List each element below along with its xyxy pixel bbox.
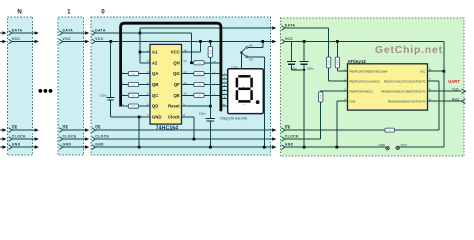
svg-text:100n: 100n bbox=[307, 66, 314, 70]
svg-text:A2: A2 bbox=[152, 60, 158, 65]
port CLOCK of module N bbox=[9, 137, 12, 142]
segment bus (bold) bbox=[121, 23, 221, 111]
7-segment indicator DS1 body bbox=[228, 69, 264, 114]
svg-text:QH: QH bbox=[173, 60, 179, 65]
wire DATA module0 port to node A bbox=[95, 32, 139, 34]
svg-text:PB4/PCINT4/ADC2: PB4/PCINT4/ADC2 bbox=[350, 89, 374, 93]
wire cascade vertical at node A bbox=[139, 28, 141, 63]
wire pin9 reset stub bbox=[182, 105, 211, 107]
7seg pins from bus bbox=[222, 74, 228, 76]
node caps ground join bbox=[303, 69, 305, 71]
svg-text:VCC: VCC bbox=[12, 37, 21, 41]
IC U2 ATtiny13 body bbox=[348, 64, 428, 110]
node A junction (DATA / A1A2 / cascade) bbox=[139, 32, 142, 35]
wire CLOCK from module N to next bbox=[34, 138, 36, 140]
svg-text:0: 0 bbox=[101, 9, 105, 16]
wire VCC through module 1 bbox=[63, 41, 86, 43]
wire VCC bottom to terminal bbox=[400, 146, 444, 148]
wire vertical to QH pin13 bbox=[190, 33, 192, 63]
IC U1 74HC164 body bbox=[150, 44, 182, 124]
svg-text:OE: OE bbox=[95, 126, 101, 130]
svg-text:GND: GND bbox=[95, 143, 104, 147]
wire CLOCK to resistor R13 bbox=[285, 138, 321, 140]
wire CLOCK through module N bbox=[12, 138, 35, 140]
svg-text:N: N bbox=[17, 9, 22, 16]
svg-text:DATA: DATA bbox=[63, 29, 74, 33]
wire feed-VCC into module N bbox=[0, 41, 4, 43]
wire GND through module 1 bbox=[63, 146, 86, 148]
wire pin8 VCC stub bbox=[428, 70, 444, 72]
svg-text:c: c bbox=[224, 81, 225, 83]
svg-text:GND: GND bbox=[152, 114, 162, 119]
svg-text:PB1/MISO/AIN1/OC0B/INT0/PCINT1: PB1/MISO/AIN1/OC0B/INT0/PCINT1 bbox=[381, 89, 426, 93]
resistor R1 segment (left QA) bbox=[122, 73, 128, 75]
svg-text:Reset: Reset bbox=[168, 104, 180, 109]
svg-text:PB3/PCINT3/CLKI/ADC3: PB3/PCINT3/CLKI/ADC3 bbox=[350, 79, 381, 83]
wire VCC through module N bbox=[12, 41, 35, 43]
wire OE through module N bbox=[12, 129, 35, 131]
wire DATA from module 1 to next bbox=[85, 32, 87, 34]
node C1 ground junction bbox=[138, 146, 141, 149]
capacitor C3 10u bbox=[290, 42, 292, 62]
port GND of controller bbox=[282, 145, 285, 150]
7seg dp pin bbox=[222, 105, 228, 107]
wire GND from module N to next bbox=[34, 146, 36, 148]
resistor R5 segment (right QH) bbox=[191, 62, 193, 64]
wire feed-OE into module N bbox=[0, 129, 4, 131]
wire GND pin7 stub bbox=[139, 116, 150, 118]
svg-text:QG: QG bbox=[173, 71, 180, 76]
port CLOCK of module 0 bbox=[92, 137, 95, 142]
node cap C4 junction bbox=[303, 40, 306, 43]
port GND of module 1 bbox=[59, 145, 62, 150]
wire VCC from module 1 to next bbox=[85, 41, 87, 43]
wire cascade out along top bbox=[140, 27, 273, 29]
svg-text:g: g bbox=[224, 97, 225, 99]
wire CLOCK through module 1 bbox=[63, 138, 86, 140]
svg-text:CLOCK: CLOCK bbox=[12, 135, 26, 139]
wire DATA node A to QH vertical bbox=[140, 32, 192, 34]
port VCC of module 1 bbox=[59, 39, 62, 44]
node VCC-cap junction bbox=[109, 40, 112, 43]
wire DATA from module N to next bbox=[34, 32, 36, 34]
svg-text:VCC: VCC bbox=[95, 37, 104, 41]
svg-text:PB2/SCK/ADC1/T0/USCK/PCINT2: PB2/SCK/ADC1/T0/USCK/PCINT2 bbox=[384, 79, 426, 83]
wire feed-DATA into module N bbox=[0, 32, 4, 34]
resistor R7 segment (right QF) bbox=[182, 84, 194, 86]
port VCC of module N bbox=[9, 39, 12, 44]
resistor R11 reset pull-up (controller) bbox=[336, 40, 339, 43]
wire VCC from module N to next bbox=[34, 41, 36, 43]
svg-text:VCC: VCC bbox=[401, 143, 408, 147]
port GND of module N bbox=[9, 145, 12, 150]
svg-text:100n: 100n bbox=[199, 112, 206, 116]
svg-text:TxD: TxD bbox=[452, 88, 459, 92]
module box 1 (dashed) bbox=[58, 17, 83, 155]
svg-text:1: 1 bbox=[67, 9, 71, 16]
node pin4-GND junction bbox=[336, 146, 339, 149]
resistor R13 clock bbox=[319, 92, 323, 102]
port CLOCK of module 1 bbox=[59, 137, 62, 142]
svg-text:QF: QF bbox=[174, 82, 180, 87]
svg-text:PB0/MOSI/AIN0/OC0A/PCINT0: PB0/MOSI/AIN0/OC0A/PCINT0 bbox=[388, 99, 426, 103]
wire OE resistor to pin7 bbox=[395, 129, 440, 131]
node A1 junction bbox=[139, 51, 142, 54]
svg-text:GND: GND bbox=[350, 99, 356, 103]
7seg decimal point bbox=[256, 100, 260, 104]
svg-text:A1: A1 bbox=[152, 50, 158, 55]
svg-text:CLOCK: CLOCK bbox=[63, 135, 77, 139]
resistor R6 segment (right QG) bbox=[182, 73, 194, 75]
resistor R2 segment (left QB) bbox=[122, 84, 128, 86]
svg-text:VCC: VCC bbox=[63, 37, 72, 41]
resistor R4 segment (left QD) bbox=[122, 105, 128, 107]
wire GND rail module 0 bbox=[95, 146, 272, 148]
port OE of module 1 bbox=[59, 128, 62, 133]
wire A2 stub bbox=[140, 62, 150, 64]
svg-text:VCC: VCC bbox=[420, 69, 426, 73]
svg-text:VCC: VCC bbox=[285, 37, 294, 41]
node switch common bbox=[240, 51, 242, 53]
wire feed-GND into module N bbox=[0, 146, 4, 148]
port DATA of module 0 bbox=[92, 31, 95, 36]
svg-text:GND: GND bbox=[379, 143, 387, 147]
wire COM vertical bbox=[240, 52, 242, 68]
svg-text:RxD: RxD bbox=[452, 98, 460, 102]
svg-text:ОК: ОК bbox=[249, 57, 253, 61]
wire pin8 stub bbox=[182, 116, 194, 118]
svg-text:CLOCK: CLOCK bbox=[95, 135, 109, 139]
svg-text:7Seg (ОК или ОА): 7Seg (ОК или ОА) bbox=[220, 116, 247, 120]
wire DATA to resistor R10 bbox=[285, 27, 329, 29]
wire VCC right vertical bbox=[443, 42, 445, 148]
resistor R12 OE bbox=[385, 128, 395, 132]
module box N (dashed) bbox=[7, 17, 32, 155]
node reset junction bbox=[209, 105, 212, 108]
port DATA of module N bbox=[9, 31, 12, 36]
port VCC of module 0 bbox=[92, 39, 95, 44]
svg-text:DATA: DATA bbox=[95, 29, 106, 33]
wire OE from module N to next bbox=[34, 129, 36, 131]
wire pin6 TxD bbox=[428, 90, 462, 92]
capacitor C4 100n bbox=[303, 42, 305, 62]
capacitor C2 100n (reset) bbox=[209, 106, 211, 118]
svg-text:Clock: Clock bbox=[168, 114, 180, 119]
switch SW1 to VCC (OA) bbox=[241, 47, 246, 52]
svg-text:PB5/PCINT5/RESET/ADC0/dW: PB5/PCINT5/RESET/ADC0/dW bbox=[350, 69, 388, 73]
svg-text:OE: OE bbox=[63, 126, 69, 130]
svg-text:g: g bbox=[243, 86, 244, 88]
port OE of module 0 bbox=[92, 128, 95, 133]
wire OE to resistor R12 bbox=[285, 129, 385, 131]
wire GND through module N bbox=[12, 146, 35, 148]
wire GND from module 1 to next bbox=[85, 146, 87, 148]
node C2 ground junction bbox=[209, 146, 212, 149]
wire GND rail controller bbox=[285, 146, 386, 148]
wire cap C1 to ground return bbox=[110, 100, 112, 117]
wire DATA through module 1 bbox=[63, 32, 86, 34]
port OE of module N bbox=[9, 128, 12, 133]
resistor R3 segment (left QC) bbox=[122, 94, 128, 96]
svg-text:COM: COM bbox=[231, 65, 238, 69]
svg-text:13: 13 bbox=[183, 59, 187, 63]
node pin14-VCC junction bbox=[199, 40, 202, 43]
wire pin5 RxD bbox=[428, 100, 462, 102]
wire pin4 to ground bbox=[337, 100, 348, 102]
node SW2-GND junction bbox=[263, 146, 266, 149]
port DATA of controller bbox=[282, 26, 285, 31]
svg-text:GND: GND bbox=[63, 143, 72, 147]
wire OE rail module 0 bbox=[95, 129, 272, 131]
svg-text:QC: QC bbox=[152, 93, 158, 98]
svg-text:d: d bbox=[224, 85, 225, 87]
terminal GND bbox=[386, 147, 389, 150]
node GND pin7 junction bbox=[138, 116, 141, 119]
wire caps to ground bbox=[303, 70, 305, 147]
wire feed-CLOCK into module N bbox=[0, 138, 4, 140]
ellipsis dots between modules N and 1 bbox=[38, 89, 42, 93]
module box 0 (dashed) bbox=[91, 17, 271, 155]
port CLOCK of controller bbox=[282, 137, 285, 142]
wire VCC down to 100n cap bbox=[110, 42, 112, 98]
node clock junction bbox=[193, 138, 196, 141]
svg-text:QB: QB bbox=[152, 82, 158, 87]
svg-text:c: c bbox=[253, 95, 254, 97]
resistor R8 segment (right QE) bbox=[182, 94, 194, 96]
svg-text:ATtiny13: ATtiny13 bbox=[348, 59, 367, 64]
wire VCC rail module 0 bbox=[95, 41, 272, 43]
node QH junction bbox=[190, 61, 193, 64]
switch SW2 to GND (OK) bbox=[241, 52, 246, 56]
svg-text:QA: QA bbox=[152, 71, 158, 76]
svg-text:GND: GND bbox=[285, 143, 294, 147]
svg-text:OE: OE bbox=[285, 126, 291, 130]
resistor R10 data bbox=[326, 57, 330, 68]
wire clock up to pin8 bbox=[193, 117, 195, 139]
node pin8-VCC junction bbox=[443, 70, 446, 73]
svg-text:74HC164: 74HC164 bbox=[156, 126, 179, 132]
port VCC of controller bbox=[282, 39, 285, 44]
wire DATA through module N bbox=[12, 32, 35, 34]
svg-text:UART: UART bbox=[448, 79, 460, 84]
svg-text:QD: QD bbox=[152, 104, 158, 109]
wire A1 stub bbox=[140, 51, 150, 53]
svg-text:OE: OE bbox=[12, 126, 18, 130]
svg-text:GetChip.net: GetChip.net bbox=[375, 45, 443, 56]
capacitor C1 100n (module 0) bbox=[107, 96, 115, 98]
port GND of module 0 bbox=[92, 145, 95, 150]
svg-text:VCC: VCC bbox=[171, 50, 180, 55]
node SW1-VCC junction bbox=[261, 40, 264, 43]
terminal VCC bbox=[396, 146, 399, 149]
resistor R9 reset pull-up bbox=[209, 40, 212, 43]
svg-text:GND: GND bbox=[12, 143, 21, 147]
svg-text:100n: 100n bbox=[100, 94, 107, 98]
wire OE through module 1 bbox=[63, 129, 86, 131]
svg-text:DATA: DATA bbox=[285, 24, 296, 28]
wire pin14 VCC connection bbox=[182, 51, 201, 53]
node caps-GND junction bbox=[303, 146, 306, 149]
7seg digit segments bbox=[237, 76, 252, 101]
svg-text:DATA: DATA bbox=[12, 29, 23, 33]
svg-text:QE: QE bbox=[173, 93, 179, 98]
svg-text:CLOCK: CLOCK bbox=[285, 135, 299, 139]
controller box (dashed green) bbox=[280, 18, 464, 156]
port DATA of module 1 bbox=[59, 31, 62, 36]
port OE of controller bbox=[282, 128, 285, 133]
wire CLOCK from module 1 to next bbox=[85, 138, 87, 140]
svg-text:ОА: ОА bbox=[249, 43, 253, 47]
wire OE from module 1 to next bbox=[85, 129, 87, 131]
wire VCC rail controller bbox=[285, 41, 444, 43]
wire CLOCK rail module 0 bbox=[95, 138, 272, 140]
svg-text:d: d bbox=[243, 104, 244, 106]
